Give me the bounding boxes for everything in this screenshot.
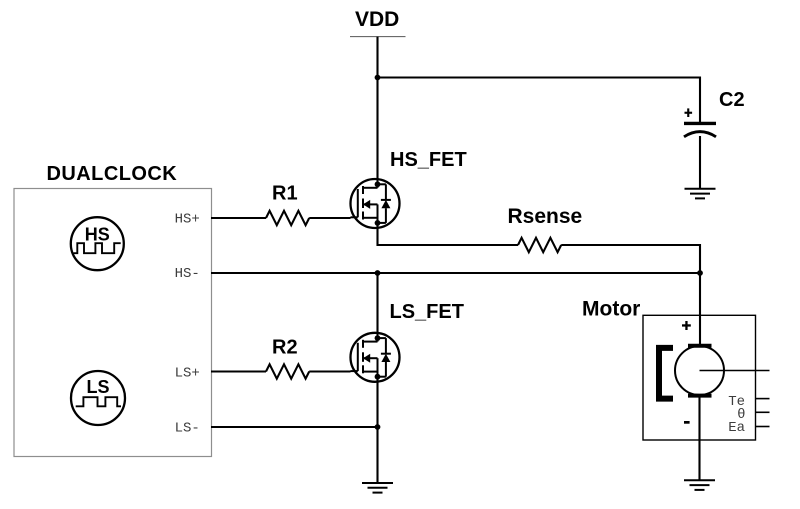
svg-text:C2: C2	[719, 89, 745, 111]
motor shaft line	[700, 370, 770, 372]
svg-text:Rsense: Rsense	[508, 205, 583, 228]
ground (below motor)	[684, 480, 715, 490]
svg-text:HS: HS	[85, 225, 110, 245]
motor box	[643, 315, 756, 440]
motor armature circle	[675, 346, 724, 395]
node HS-/LS_FET drain	[375, 270, 381, 276]
wire R1 to HS_FET gate	[309, 217, 350, 219]
svg-text:LS-: LS-	[175, 420, 200, 436]
motor brush bar top	[688, 344, 712, 348]
transistor LS_FET	[351, 333, 400, 382]
wire LS_FET source to ground	[376, 377, 378, 483]
transistor HS_FET	[351, 179, 400, 228]
resistor Rsense	[518, 238, 561, 252]
resistor R1	[266, 211, 309, 225]
svg-text:Motor: Motor	[582, 298, 640, 321]
svg-text:R2: R2	[272, 337, 298, 359]
ground (below LS_FET)	[362, 483, 393, 493]
svg-text:HS_FET: HS_FET	[390, 149, 467, 171]
node HS-/motor	[697, 270, 703, 276]
node VDD/C2 junction	[375, 75, 381, 81]
wire HS- net	[211, 272, 700, 274]
wire LS- to source net	[211, 426, 378, 428]
wire VDD node to C2	[378, 78, 701, 123]
svg-text:HS-: HS-	[175, 266, 200, 282]
wire VDD to HS_FET drain	[376, 37, 378, 180]
motor stator bracket	[659, 348, 673, 399]
svg-text:LS+: LS+	[175, 366, 200, 382]
motor output stub Te	[756, 398, 770, 400]
wire node to motor	[699, 273, 701, 345]
svg-text:DUALCLOCK: DUALCLOCK	[47, 163, 178, 185]
svg-text:HS+: HS+	[175, 212, 200, 228]
capacitor C2 plus sign	[685, 108, 693, 117]
svg-text:R1: R1	[272, 183, 298, 205]
motor output stub theta	[756, 411, 770, 413]
svg-text:LS_FET: LS_FET	[390, 301, 464, 323]
wire R2 to LS_FET gate	[309, 370, 350, 372]
resistor R2	[266, 364, 309, 378]
motor plus terminal label	[682, 321, 691, 330]
svg-text:VDD: VDD	[355, 8, 399, 31]
clock source LS	[71, 371, 125, 425]
wire Rsense to motor node	[561, 245, 700, 273]
motor minus terminal label	[684, 421, 690, 424]
motor brush bar bottom	[688, 394, 712, 398]
wire LS+ to R2	[211, 370, 266, 372]
svg-text:LS: LS	[86, 377, 109, 397]
clock source HS	[71, 217, 124, 270]
wire node to LS_FET drain	[376, 273, 378, 333]
wire C2 to ground	[699, 136, 701, 189]
capacitor C2	[684, 123, 716, 136]
svg-text:Ea: Ea	[728, 420, 745, 436]
ground (below C2)	[685, 189, 716, 199]
motor output stub Ea	[756, 426, 770, 428]
node LS-/source junction	[375, 424, 381, 430]
wire HS+ to R1	[211, 217, 266, 219]
DUALCLOCK box	[14, 189, 212, 457]
power symbol VDD (bar)	[350, 36, 406, 38]
wire motor to ground	[698, 396, 700, 481]
wire HS_FET source to Rsense	[378, 223, 519, 245]
